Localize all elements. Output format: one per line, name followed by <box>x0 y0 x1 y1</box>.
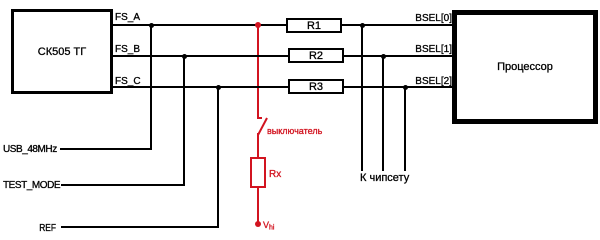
wire TEST_MODE horizontal <box>61 184 185 186</box>
label Vhi <box>263 221 274 233</box>
label vyklyuchatel <box>267 127 322 136</box>
processor box <box>452 10 598 124</box>
label Rx <box>269 170 281 180</box>
wire REF horizontal <box>61 226 219 228</box>
red wire upper vertical <box>257 25 259 117</box>
label BSEL[1] <box>415 45 452 55</box>
switch fixed contact tick <box>257 117 262 119</box>
label BSEL[0] <box>415 14 452 24</box>
resistor R2 <box>288 48 344 63</box>
wire FS_B right segment <box>344 55 452 57</box>
node Vhi <box>255 221 261 227</box>
clock generator box CK505 TG <box>11 9 113 94</box>
junction dot FS_B / TEST_MODE <box>182 54 188 60</box>
wire to chipset 1 vertical <box>361 25 363 171</box>
junction dot BSEL[2] branch <box>403 85 409 91</box>
red wire lower vertical <box>257 188 259 224</box>
junction dot BSEL[1] branch <box>381 54 387 60</box>
red wire middle vertical <box>257 133 259 157</box>
label FS_A <box>115 13 140 23</box>
wire FS_A left segment <box>113 24 286 26</box>
resistor R1 <box>286 18 342 33</box>
wire FS_B left segment <box>113 55 288 57</box>
label REF <box>39 224 56 234</box>
wire TEST_MODE vertical <box>183 56 185 186</box>
label TEST_MODE <box>3 181 60 191</box>
wire to chipset 2 vertical <box>382 56 384 171</box>
wire USB_48MHz horizontal <box>60 148 152 150</box>
label BSEL[2] <box>415 77 452 87</box>
wire FS_C left segment <box>113 86 288 88</box>
red node on FS_A <box>255 22 261 28</box>
junction dot FS_C / REF <box>216 85 222 91</box>
wire REF vertical <box>217 87 219 228</box>
wire FS_C right segment <box>344 86 452 88</box>
wire USB_48MHz vertical <box>150 25 152 150</box>
wire to chipset 3 vertical <box>404 87 406 171</box>
resistor R3 <box>288 79 344 94</box>
junction dot BSEL[0] branch <box>360 23 366 29</box>
label FS_B <box>115 45 140 55</box>
wire FS_A right segment <box>342 24 452 26</box>
label FS_C <box>115 77 141 87</box>
switch blade (vyklyuchatel) <box>254 114 272 140</box>
label USB_48MHz <box>3 145 57 155</box>
label K chipsetu <box>360 173 409 184</box>
junction dot FS_A / USB_48MHz <box>149 23 155 29</box>
resistor Rx <box>250 157 266 188</box>
